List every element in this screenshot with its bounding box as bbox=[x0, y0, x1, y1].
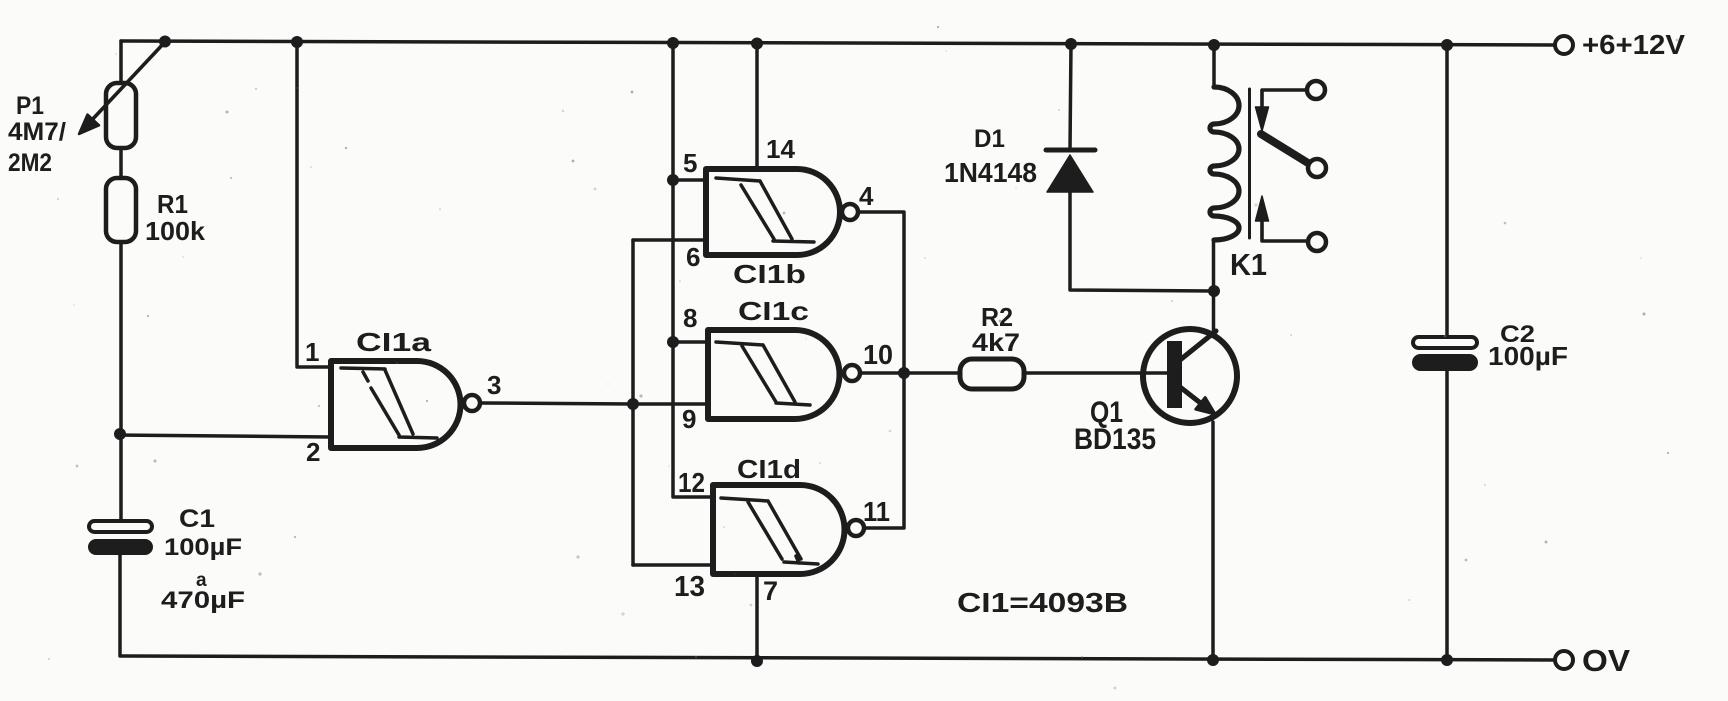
wire node to pin2 bbox=[120, 435, 330, 437]
svg-text:2M2: 2M2 bbox=[8, 149, 52, 177]
relay armature bbox=[1261, 134, 1308, 163]
node pin3 bbox=[627, 398, 639, 410]
svg-text:4k7: 4k7 bbox=[972, 329, 1020, 357]
svg-text:1: 1 bbox=[305, 337, 319, 367]
wire emitter bbox=[1211, 422, 1215, 660]
terminal 0V bbox=[1555, 651, 1573, 669]
svg-text:11: 11 bbox=[863, 496, 890, 527]
diode D1 bbox=[1070, 44, 1071, 150]
node gnd C2 bbox=[1441, 654, 1453, 666]
relay contact NC bbox=[1262, 90, 1306, 108]
svg-text:D1: D1 bbox=[974, 125, 1005, 153]
svg-text:C1: C1 bbox=[179, 505, 215, 533]
wire pin3 output bbox=[481, 403, 708, 404]
svg-text:CI1a: CI1a bbox=[356, 327, 432, 357]
nand gate CI1a bbox=[331, 361, 460, 448]
wire pin7 ground bbox=[755, 574, 759, 661]
svg-text:6: 6 bbox=[686, 242, 700, 272]
svg-text:100µF: 100µF bbox=[164, 534, 242, 561]
node rail D1 bbox=[1065, 38, 1077, 50]
relay K1 coil bbox=[1212, 45, 1216, 87]
svg-text:5: 5 bbox=[683, 148, 697, 178]
wire pin1 bbox=[297, 42, 330, 367]
node rail relay bbox=[1208, 39, 1220, 51]
svg-text:BD135: BD135 bbox=[1074, 423, 1156, 456]
node C1 pin2 bbox=[114, 428, 126, 440]
wire outputs join bbox=[858, 212, 904, 528]
P1 wiper arrow bbox=[90, 42, 165, 122]
svg-text:2: 2 bbox=[306, 437, 320, 467]
potentiometer P1 bbox=[106, 83, 136, 148]
svg-text:P1: P1 bbox=[16, 92, 44, 120]
node junction dots bbox=[114, 36, 1453, 668]
node rail pin14 bbox=[751, 38, 763, 50]
svg-text:CI1=4093B: CI1=4093B bbox=[957, 587, 1128, 618]
svg-text:R2: R2 bbox=[981, 302, 1013, 332]
svg-text:470µF: 470µF bbox=[161, 587, 245, 614]
wire R2 to base bbox=[1024, 371, 1167, 375]
svg-text:K1: K1 bbox=[1230, 247, 1267, 282]
wire feedback branch bbox=[631, 240, 635, 565]
node gnd emitter bbox=[1207, 654, 1219, 666]
svg-text:CI1b: CI1b bbox=[733, 259, 806, 289]
wire +V inputs branch bbox=[673, 43, 713, 497]
svg-text:4: 4 bbox=[859, 181, 874, 211]
node rail P1 bbox=[159, 36, 171, 48]
wire bottom rail bbox=[121, 656, 1555, 660]
svg-text:7: 7 bbox=[763, 576, 778, 606]
svg-text:+6+12V: +6+12V bbox=[1582, 29, 1685, 60]
svg-text:8: 8 bbox=[683, 303, 697, 333]
relay core bar bbox=[1248, 89, 1251, 238]
svg-text:100k: 100k bbox=[145, 216, 206, 246]
node pin8 bbox=[667, 336, 679, 348]
transistor Q1 bbox=[1143, 329, 1237, 423]
svg-text:OV: OV bbox=[1582, 643, 1630, 678]
node gnd pin7 bbox=[751, 655, 763, 667]
svg-text:R1: R1 bbox=[157, 189, 188, 219]
wire collector bbox=[1212, 240, 1216, 331]
svg-text:CI1d: CI1d bbox=[737, 454, 801, 484]
terminal +6+12V bbox=[1555, 36, 1573, 54]
node rail pin1 bbox=[291, 36, 303, 48]
nand gate CI1c bbox=[708, 330, 840, 419]
capacitor C1 bbox=[89, 521, 152, 532]
relay contact NO bbox=[1262, 222, 1306, 241]
svg-text:100µF: 100µF bbox=[1488, 341, 1568, 371]
wire top rail bbox=[121, 41, 1555, 45]
node pin10 bbox=[898, 367, 910, 379]
svg-text:14: 14 bbox=[766, 134, 796, 164]
node pin5 bbox=[667, 174, 679, 186]
wire pin14 bbox=[755, 43, 759, 169]
capacitor C2 bbox=[1445, 45, 1449, 336]
node D1 collector bbox=[1208, 285, 1220, 297]
svg-text:9: 9 bbox=[682, 404, 696, 434]
resistor R1 bbox=[106, 178, 136, 242]
resistor R2 bbox=[960, 359, 1024, 389]
node rail inputs bbox=[667, 37, 679, 49]
svg-text:13: 13 bbox=[674, 571, 705, 603]
svg-text:10: 10 bbox=[863, 339, 893, 370]
svg-text:12: 12 bbox=[678, 467, 705, 498]
svg-text:3: 3 bbox=[487, 370, 501, 400]
node rail C2 bbox=[1441, 39, 1453, 51]
svg-text:1N4148: 1N4148 bbox=[944, 157, 1037, 188]
svg-text:4M7/: 4M7/ bbox=[8, 118, 66, 146]
nand gate CI1b bbox=[706, 169, 840, 255]
nand gate CI1d bbox=[713, 485, 845, 574]
wire left vertical branch bbox=[119, 41, 123, 84]
svg-text:CI1c: CI1c bbox=[738, 296, 809, 326]
